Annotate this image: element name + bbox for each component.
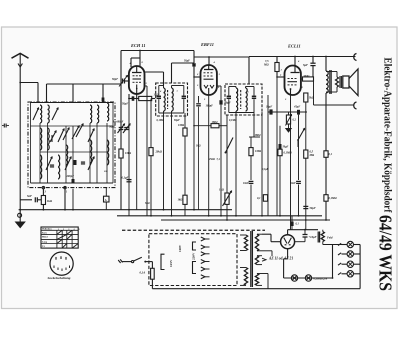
svg-text:50μF: 50μF (283, 146, 289, 149)
IF1 box (156, 83, 188, 116)
IF2 cap left (227, 87, 231, 113)
resistor 0,1M out (257, 195, 268, 202)
tube EBF11 (201, 65, 217, 95)
secondary winding 2 (255, 256, 266, 265)
wire v x129 (128, 99, 130, 217)
wire v x236 (235, 111, 237, 216)
label 220V (192, 252, 196, 260)
box0 wire v x66 (65, 126, 67, 183)
dial lamp 3 (338, 261, 360, 267)
label lamps (314, 276, 328, 280)
selector fork 4 (201, 260, 210, 264)
svg-text:50μF: 50μF (310, 207, 316, 210)
resistor 0,5M (304, 150, 315, 158)
ground bus y210 (19, 209, 232, 211)
speaker transformer (336, 76, 342, 88)
svg-text:+16μF: +16μF (309, 235, 317, 239)
svg-text:0,1MΩ: 0,1MΩ (157, 119, 165, 122)
wire terminal1 down (64, 189, 74, 211)
box0 wire v x40 (39, 123, 41, 183)
label 5k low (145, 202, 150, 205)
cap 16uF (303, 230, 317, 242)
svg-text:2: 2 (63, 229, 64, 231)
box0 wire v right (112, 103, 114, 184)
lamp switch column (332, 245, 334, 279)
svg-text:220V: 220V (192, 252, 196, 260)
terminal C top (354, 54, 357, 61)
secondary heater wire (257, 251, 272, 289)
wire v x221 (217, 86, 221, 216)
terminal 2 (42, 186, 46, 193)
cap 50pF (112, 76, 129, 87)
svg-text:50μF: 50μF (174, 119, 180, 122)
tube ECL11 (285, 65, 301, 95)
label 10nF (243, 182, 249, 185)
IF1 pins (160, 90, 179, 93)
cap box0-b (81, 162, 85, 164)
svg-text:Mittel: Mittel (42, 237, 48, 239)
wire grid leak down (276, 76, 278, 216)
selector fork 5 (201, 267, 210, 271)
box0 wire h mid (31, 125, 114, 127)
mains switch (132, 257, 153, 263)
mains plug ticks (118, 259, 122, 263)
label 300pF (103, 170, 108, 173)
svg-text:10nF: 10nF (243, 182, 249, 185)
IF1 bottom wires (159, 112, 184, 114)
wire v x147 (145, 86, 148, 216)
title large: 64/49 WKS (376, 215, 396, 291)
heater lamp wire (284, 277, 334, 279)
coil L11 (48, 128, 50, 150)
svg-text:125V: 125V (169, 259, 173, 267)
dial lamp 4 (338, 271, 360, 277)
svg-text:MΩ: MΩ (263, 64, 269, 67)
cap blob C-e (74, 160, 77, 165)
selector fork 2 (201, 245, 210, 249)
svg-text:20kΩ: 20kΩ (155, 151, 163, 154)
cap 0,1 mains (290, 216, 299, 230)
cap box0-a (50, 165, 54, 167)
IF1 top wires (159, 85, 184, 87)
svg-text:1MΩ: 1MΩ (125, 152, 132, 155)
wire v x194 (193, 76, 195, 210)
switch S2 (63, 128, 69, 140)
band switch coil box outline (28, 102, 115, 188)
svg-text:50μF: 50μF (109, 126, 115, 129)
svg-text:50pF: 50pF (112, 78, 118, 81)
speaker (343, 69, 358, 96)
heater lamp 2 (305, 275, 311, 281)
wire v x262 (261, 112, 263, 216)
IF1 cap left (157, 86, 161, 114)
svg-text:50nF: 50nF (290, 182, 296, 185)
wire top AVC (121, 50, 194, 52)
wire v x151 (150, 99, 152, 217)
coil L12 (58, 155, 60, 179)
resistor 20k (109, 126, 163, 156)
resistor 7,5M (263, 57, 285, 78)
svg-text:30μF: 30μF (265, 106, 272, 109)
rectifier cathode down (284, 249, 288, 278)
svg-text:50μF: 50μF (122, 102, 128, 105)
wire top EBF (194, 56, 249, 84)
svg-text:5μF: 5μF (303, 63, 308, 67)
svg-text:TA: TA (42, 245, 45, 248)
svg-text:ECL11: ECL11 (287, 44, 301, 49)
svg-text:MΩ: MΩ (309, 154, 315, 157)
switch TA (297, 129, 304, 148)
lamp bus right (359, 245, 361, 289)
secondary winding 1 (255, 234, 262, 251)
ECH cathode net (122, 93, 159, 105)
svg-text:1MΩ: 1MΩ (255, 134, 262, 137)
antenna symbol (12, 53, 29, 82)
coil L8 (107, 103, 109, 121)
bottom wire (152, 288, 360, 290)
cap 5nF (27, 194, 41, 202)
svg-text:EBF11: EBF11 (200, 42, 214, 47)
wire v x136 (136, 99, 138, 210)
wire ECH plate (145, 72, 164, 86)
terminal C bottom (354, 102, 357, 109)
svg-text:AZ 11 od. AZ 21: AZ 11 od. AZ 21 (268, 257, 293, 261)
resistor 1k (41, 189, 52, 211)
cap 0,1uF (122, 177, 132, 182)
dial lamp 2 (338, 251, 360, 257)
label 0,1uF mid (262, 168, 269, 171)
tube socket diagram (50, 252, 73, 275)
selector fork 1 (201, 237, 210, 241)
wire v x290 heater (290, 95, 292, 230)
cap box0-c (102, 98, 105, 102)
label cluster u-box1 (157, 119, 181, 122)
svg-text:Kurz: Kurz (42, 233, 47, 235)
wire 5nF branch (20, 199, 32, 201)
terminal 1 (64, 186, 68, 193)
speaker prim wires (326, 72, 337, 93)
title small: Elektro-Apparate-Fabrik, Koppelsdorf (382, 58, 393, 214)
svg-text:1kΩ: 1kΩ (196, 145, 201, 148)
cap 50uF grid EBF (192, 51, 200, 78)
svg-text:110V: 110V (178, 244, 182, 252)
power transformer box (149, 234, 237, 286)
switch S5 (88, 157, 94, 170)
box0 wire h mid2 (40, 151, 107, 153)
svg-text:A: A (105, 199, 107, 202)
resistor 0,1M right (324, 151, 333, 158)
coil L9 (107, 140, 109, 165)
wire v x185 (184, 113, 186, 216)
label 1k mid3 (196, 145, 201, 148)
label 50uF mid (283, 146, 289, 149)
primary winding upper (240, 235, 248, 251)
box0 wire v x47.5 (47, 123, 49, 183)
wave switch lever (217, 138, 234, 162)
svg-text:1MΩ: 1MΩ (212, 121, 219, 124)
wire v x305 low (305, 158, 307, 230)
wire IF1 sec out (172, 63, 195, 83)
wire out bottom (314, 104, 355, 106)
resistor 0,1M right2 (324, 195, 338, 202)
pot 0,2 fb (286, 112, 297, 126)
wire v x305 down (305, 112, 307, 150)
box0 wire v x97 (96, 123, 98, 183)
mains dashed (122, 229, 265, 231)
selector fork 3 (201, 252, 210, 256)
EBF11 electrodes (196, 61, 220, 101)
wire v x208 (208, 95, 210, 216)
svg-text:64/49 WKS: 64/49 WKS (376, 215, 396, 291)
heater lamp 1 (291, 275, 297, 281)
fuse 0,1A (140, 262, 155, 289)
svg-text:Sockelschaltung: Sockelschaltung (48, 276, 71, 280)
resistor 1M ECH (119, 149, 132, 158)
coil L1 (40, 105, 42, 123)
svg-text:0,1MΩ: 0,1MΩ (329, 197, 338, 200)
box0 wire h bot (31, 182, 114, 184)
box0 wire h top (31, 102, 114, 104)
rectifier tube AZ11 (281, 235, 295, 249)
cap 200pF (66, 175, 75, 184)
svg-text:0,1μF: 0,1μF (262, 168, 269, 171)
bus y220 (161, 219, 330, 221)
wire grid cap ECH (131, 50, 141, 67)
wire to switch (122, 261, 132, 263)
cap 100pF (196, 96, 213, 210)
switch S6 (46, 157, 52, 170)
voltage bracket 3 (193, 262, 197, 274)
wire v x121 (120, 51, 122, 210)
rectifier wires (262, 234, 281, 242)
ECH11 electrodes (125, 61, 148, 100)
svg-text:Feld: Feld (327, 236, 333, 240)
wire antenna to coil box (20, 83, 38, 103)
IF2 primary coil (236, 87, 238, 112)
svg-text:45μF: 45μF (293, 106, 300, 109)
cap 50uF out (303, 206, 316, 210)
wire antenna down to ground bus (19, 82, 21, 211)
resistor 1k mid (178, 195, 188, 204)
rectifier output (288, 229, 318, 242)
IF2 secondary coil (246, 87, 248, 112)
svg-text:1MΩ: 1MΩ (255, 150, 262, 153)
trimmer C-d (76, 124, 83, 137)
choke out (323, 230, 347, 245)
svg-text:100pF: 100pF (206, 105, 214, 108)
svg-text:1: 1 (58, 229, 59, 231)
extra junction dots (171, 215, 307, 221)
IF1 secondary coil (172, 86, 174, 114)
choke Feld (318, 232, 333, 243)
resistor 1M mid (178, 124, 187, 136)
svg-text:0,1MΩ: 0,1MΩ (284, 152, 293, 155)
cap 10nF det (249, 181, 254, 216)
label ECH 11 (130, 43, 146, 48)
wire v x171 (171, 113, 173, 216)
selector fork 6 (201, 275, 210, 279)
IF2 cap right (252, 87, 256, 113)
ground earth arrow (16, 210, 25, 228)
box0 wire v x90 (89, 123, 91, 183)
svg-text:0,1μF: 0,1μF (122, 177, 129, 180)
voltage bracket 2 (193, 242, 197, 250)
voltage bracket 1 (161, 254, 165, 269)
label 125V (169, 259, 173, 267)
IF2 core (240, 90, 242, 109)
svg-text:ECH 11: ECH 11 (130, 43, 146, 48)
svg-text:300: 300 (103, 170, 108, 173)
dial lamp 1 (338, 241, 360, 247)
variable caps 10-680pF (113, 121, 130, 134)
label AZ11 (268, 257, 293, 261)
svg-text:0,1: 0,1 (329, 153, 333, 156)
wire v x268 down (267, 112, 269, 216)
resistor 5k ECL (304, 82, 315, 113)
svg-text:500Ω: 500Ω (304, 75, 310, 78)
ECL11 electrodes (279, 57, 304, 102)
resistor 500 fb (301, 75, 314, 105)
coil L2 (48, 105, 50, 123)
box0 wire v x73 (72, 126, 74, 183)
label 110V (178, 244, 182, 252)
svg-text:0,1MΩ: 0,1MΩ (229, 119, 237, 122)
svg-text:1MΩ: 1MΩ (178, 124, 185, 127)
coil L10 (66, 145, 68, 165)
field coil choke (326, 57, 331, 221)
cap 50nF (296, 181, 301, 216)
wire v x163 (163, 113, 165, 210)
secondary winding 3 (255, 274, 262, 286)
wire antenna branch (47, 84, 122, 102)
pickup jack A (104, 188, 110, 210)
IF1 core (167, 90, 169, 109)
switch S1 (50, 131, 56, 142)
bus y216 (117, 215, 322, 217)
svg-text:50μF: 50μF (184, 60, 190, 63)
svg-text:Elektro-Apparate-Fabrik, Köppe: Elektro-Apparate-Fabrik, Köppelsdorf (382, 58, 393, 214)
IF1 cap right (182, 86, 186, 114)
svg-text:10-680pF: 10-680pF (113, 121, 124, 124)
svg-text:5kΩ: 5kΩ (145, 202, 150, 205)
cap 5uF (303, 56, 316, 79)
label 25k (208, 158, 215, 161)
svg-text:5nF: 5nF (27, 194, 32, 198)
volume pot 0,5M (219, 115, 232, 220)
wave-band table (41, 227, 81, 248)
svg-text:0,1K6,0,3A: 0,1K6,0,3A (314, 276, 328, 280)
IF2 box (225, 84, 262, 115)
svg-text:1kΩ: 1kΩ (47, 199, 53, 203)
switch S3 (88, 129, 94, 142)
coil L6 (40, 155, 42, 179)
svg-text:25kΩ: 25kΩ (208, 158, 215, 161)
trimmer C-b (58, 129, 64, 142)
svg-text:1: 1 (281, 69, 282, 72)
transformer core (251, 231, 253, 287)
svg-text:Wellenber.: Wellenber. (42, 229, 52, 231)
IF2 wires (229, 87, 254, 113)
label 1M mid2 (255, 134, 262, 137)
cap 50uF screen (219, 100, 230, 104)
tube ECH11 (129, 66, 145, 94)
svg-text:1: 1 (219, 73, 220, 76)
switch S4 (65, 157, 71, 170)
label ECL11 (287, 44, 301, 49)
label 50uF EBFgrid (184, 60, 190, 63)
box0 trimmer e (33, 108, 39, 120)
svg-text:0,1: 0,1 (257, 197, 261, 200)
svg-text:0,1A: 0,1A (140, 271, 146, 275)
label Sockelschaltung (48, 276, 71, 280)
ECL cathode bus (265, 95, 307, 115)
primary winding lower (240, 268, 248, 286)
label cluster u-box2 (229, 119, 237, 122)
resistor 0,1M det2 (278, 126, 293, 216)
resistor 1M det (249, 137, 262, 180)
box0 wire v x107 (106, 123, 108, 183)
antenna trimmer cap (2, 124, 9, 128)
coil L3 (90, 105, 92, 123)
label EBF11 (200, 42, 214, 47)
trimmer C-c (72, 126, 79, 139)
trimmer C-a (52, 108, 58, 120)
resistor 1M hor (193, 121, 227, 128)
label 50nF (290, 182, 296, 185)
coil L5 (40, 128, 42, 150)
wire v x298 down (298, 115, 300, 180)
output transformer primary (326, 71, 337, 73)
box0 wire v left (30, 103, 32, 184)
earth arrow small (286, 124, 291, 132)
coil L7 (90, 140, 92, 163)
coil L4 (97, 105, 99, 123)
wire v x254 (253, 113, 255, 138)
wire top ECL (249, 56, 354, 58)
IF1 primary coil (164, 86, 166, 114)
